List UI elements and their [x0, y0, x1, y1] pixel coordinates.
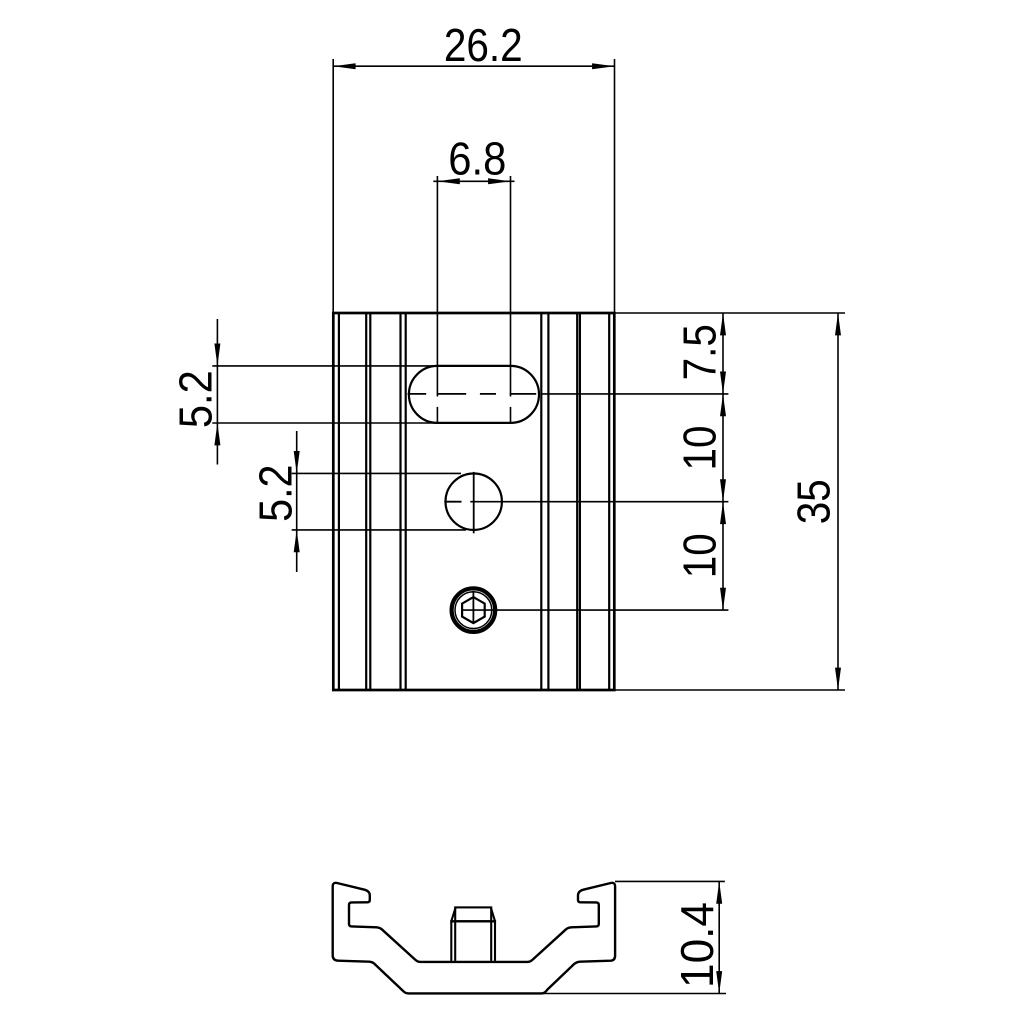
dimension 10 second arrow bottom	[720, 588, 726, 610]
extrusion groove line 1	[338, 313, 340, 690]
svg-text:26.2: 26.2	[444, 20, 523, 71]
dimension 10.4 arrow bottom	[716, 971, 722, 993]
dimension 5.2 hole arrow top	[294, 451, 300, 473]
extrusion groove line 10	[608, 313, 610, 690]
extrusion groove line 4	[399, 313, 401, 690]
dimension 35 arrow top	[835, 313, 841, 335]
round hole vertical centerline	[473, 472, 475, 533]
dimension 6.8 extension line right (into slot)	[510, 176, 512, 397]
screw head inner circle	[455, 592, 492, 629]
dimension 26.2 line	[333, 65, 614, 67]
slotted hole (6.8 x 5.2 slot)	[409, 366, 539, 423]
svg-text:10.4: 10.4	[671, 902, 723, 988]
dimension 7.5 arrow bottom	[720, 372, 726, 394]
dimension 5.2 slot arrow top	[214, 344, 220, 366]
round hole centerline extension to chain dimension	[470, 501, 728, 503]
svg-text:6.8: 6.8	[448, 134, 506, 185]
dimension 35 arrow bottom	[835, 668, 841, 690]
extrusion groove line 5	[405, 313, 407, 690]
dimension 5.2 hole extension line bottom	[292, 529, 466, 531]
screw hex socket	[462, 597, 485, 623]
extrusion groove line 7	[547, 313, 549, 690]
extrusion groove line 9	[579, 313, 581, 690]
extrusion groove line 3	[369, 313, 371, 690]
dimension 10.4 extension line bottom	[540, 993, 726, 995]
body bottom edge extension to 35 dimension	[614, 689, 845, 691]
dimension 26.2 extension line left	[332, 59, 334, 313]
dimension 5.2 hole extension line top	[292, 472, 461, 474]
screw head outer circle	[452, 588, 496, 632]
dimension 10.4 extension line top	[615, 880, 725, 882]
screw boss right inner wall	[490, 921, 492, 961]
chain dimension line 7.5/10/10	[722, 313, 724, 610]
round hole (dia 5.2)	[446, 474, 502, 530]
screw boss base line	[450, 920, 496, 922]
slot centerline extension to chain dimension	[542, 393, 729, 395]
dimension 5.2 slot arrow bottom	[214, 423, 220, 445]
dimension 35 line	[837, 313, 839, 690]
screw vertical centerline	[472, 591, 474, 624]
round hole horizontal centerline dash	[444, 501, 461, 503]
dimension 6.8 line	[433, 180, 514, 182]
dimension 5.2 slot extension line bottom	[212, 422, 437, 424]
svg-text:5.2: 5.2	[250, 464, 302, 521]
dimension 26.2 arrow left	[333, 63, 355, 69]
extrusion groove line 6	[540, 313, 542, 690]
svg-text:10: 10	[675, 425, 726, 470]
dimension 7.5 arrow top	[720, 313, 726, 335]
slot horizontal centerline (dashed)	[408, 393, 427, 395]
dimension 10 second arrow top	[720, 502, 726, 524]
svg-text:35: 35	[789, 479, 840, 524]
extrusion groove line 2	[365, 313, 367, 690]
dimension 6.8 arrow left	[437, 178, 459, 184]
screw boss chamfer right	[491, 908, 495, 921]
screw boss right outer wall	[494, 921, 496, 961]
screw boss left inner wall	[454, 921, 456, 961]
dimension 6.8 extension line left (into slot)	[436, 176, 438, 397]
screw boss chamfer left	[451, 908, 455, 921]
dimension 10.4 arrow top	[716, 881, 722, 903]
screw boss top face outline (section view)	[455, 907, 491, 921]
dimension 10 first arrow bottom	[720, 479, 726, 501]
dimension 5.2 slot line	[216, 319, 218, 465]
svg-text:10: 10	[675, 533, 726, 578]
dimension 10.4 line	[718, 881, 720, 993]
dimension 6.8 arrow right	[488, 178, 510, 184]
dimension 5.2 hole line	[296, 431, 298, 572]
svg-text:7.5: 7.5	[675, 324, 726, 380]
dimension 5.2 hole arrow bottom	[294, 530, 300, 552]
svg-text:5.2: 5.2	[171, 370, 222, 428]
DIN rail clip profile outline (section view)	[333, 883, 615, 994]
bracket body outline (front view)	[333, 313, 614, 690]
screw boss left outer wall	[450, 921, 452, 961]
dimension 10 first arrow top	[720, 394, 726, 416]
dimension 26.2 extension line right	[614, 59, 616, 313]
screw centerline extension to chain dimension	[462, 609, 728, 611]
dimension 5.2 slot extension line top	[212, 365, 437, 367]
dimension 26.2 arrow right	[592, 63, 614, 69]
extrusion groove line 8	[576, 313, 578, 690]
body top edge extension to 35 dimension	[614, 312, 845, 314]
